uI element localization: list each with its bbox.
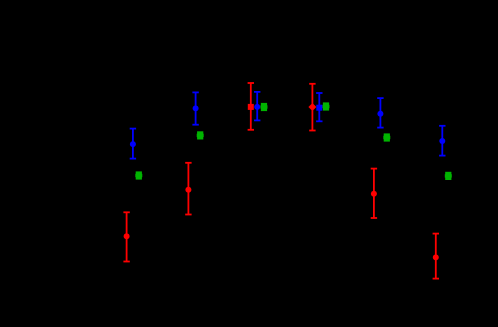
c5 blue marker bbox=[377, 111, 383, 117]
c4 green marker bbox=[323, 105, 330, 108]
c1 red error bar bbox=[123, 212, 129, 261]
c2 red error bar bbox=[185, 163, 191, 215]
c3 green marker bbox=[261, 105, 268, 108]
c5 red error bar bbox=[371, 169, 377, 218]
c2 green error bar bbox=[197, 131, 203, 139]
c3 red error bar bbox=[248, 83, 254, 130]
c4 blue error bar bbox=[316, 93, 322, 121]
c5 green error bar bbox=[384, 133, 390, 141]
c6 red error bar bbox=[433, 234, 439, 279]
c4 blue marker bbox=[316, 105, 322, 111]
c6 blue error bar bbox=[439, 126, 445, 156]
c3 red marker bbox=[248, 104, 254, 110]
c1 green marker bbox=[135, 174, 142, 177]
c4 red error bar bbox=[309, 84, 315, 131]
c2 green marker bbox=[197, 134, 204, 137]
c1 blue marker bbox=[130, 141, 136, 147]
c5 blue error bar bbox=[377, 98, 383, 128]
c4 red marker bbox=[308, 103, 316, 111]
c4 green error bar bbox=[323, 102, 329, 110]
c2 blue marker bbox=[193, 105, 199, 111]
c1 blue error bar bbox=[130, 129, 136, 159]
c3 blue marker bbox=[254, 104, 260, 110]
c6 red marker bbox=[433, 254, 439, 260]
c5 red marker bbox=[371, 191, 377, 197]
c1 red marker bbox=[124, 233, 130, 239]
c6 green error bar bbox=[445, 172, 451, 180]
c3 green error bar bbox=[261, 103, 267, 111]
c6 blue marker bbox=[439, 138, 445, 144]
c3 blue error bar bbox=[254, 92, 260, 121]
c6 green marker bbox=[445, 174, 452, 177]
c2 red marker bbox=[185, 187, 191, 193]
c5 green marker bbox=[383, 136, 390, 139]
c1 green error bar bbox=[136, 171, 142, 179]
c2 blue error bar bbox=[192, 92, 198, 124]
